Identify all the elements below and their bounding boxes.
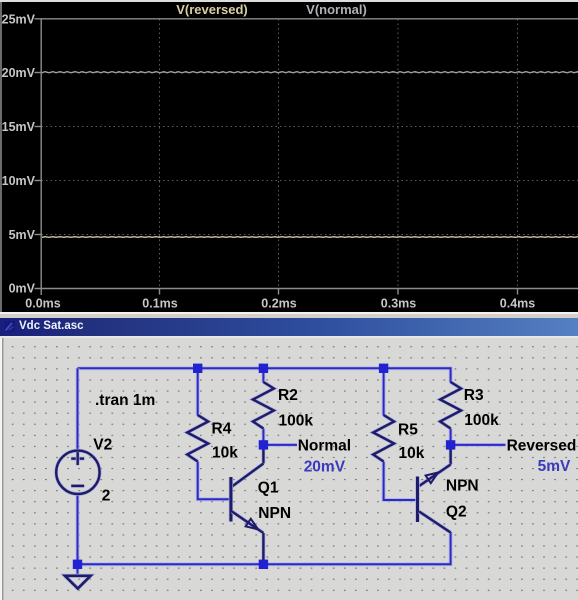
svg-text:0.2ms: 0.2ms bbox=[261, 297, 296, 311]
trace label V(reversed) bbox=[150, 2, 274, 17]
svg-text:15mV: 15mV bbox=[2, 120, 36, 134]
svg-text:Reversed: Reversed bbox=[507, 437, 577, 454]
svg-text:NPN: NPN bbox=[258, 505, 291, 522]
svg-text:Normal: Normal bbox=[298, 437, 351, 454]
svg-text:R4: R4 bbox=[212, 421, 232, 438]
wire R2 bottom lead bbox=[261, 429, 265, 442]
svg-text:R2: R2 bbox=[278, 387, 298, 404]
svg-text:NPN: NPN bbox=[446, 478, 479, 495]
annotation 20mV bbox=[304, 459, 346, 476]
resistor R4 bbox=[187, 415, 208, 462]
label Q2 bbox=[446, 504, 467, 521]
svg-text:Q1: Q1 bbox=[258, 480, 279, 497]
svg-text:5mV: 5mV bbox=[538, 458, 571, 475]
junction ground node bbox=[73, 560, 82, 569]
wire R2 top lead bbox=[261, 368, 265, 382]
value 100k (R2) bbox=[279, 412, 314, 429]
svg-text:100k: 100k bbox=[464, 412, 499, 429]
wire R4 bottom to Q1 base bbox=[198, 462, 230, 500]
svg-text:10mV: 10mV bbox=[2, 174, 36, 188]
horizontal dotted gridlines bbox=[42, 73, 578, 235]
trace label V(normal) bbox=[280, 2, 393, 17]
value 100k (R3) bbox=[464, 412, 499, 429]
svg-text:2: 2 bbox=[102, 488, 111, 505]
value 10k (R5) bbox=[399, 445, 425, 462]
svg-text:0mV: 0mV bbox=[9, 282, 36, 296]
wire R5 top lead bbox=[382, 368, 386, 415]
voltage source V2 bbox=[56, 451, 99, 494]
resistor R3 bbox=[440, 382, 461, 429]
wire R5 bottom to Q2 base bbox=[384, 462, 416, 501]
svg-text:100k: 100k bbox=[279, 412, 314, 429]
trace V(reversed) 5mV bbox=[42, 236, 578, 239]
svg-text:20mV: 20mV bbox=[304, 459, 346, 476]
wire top rail with corner to R3 bbox=[78, 368, 451, 382]
ground bbox=[65, 568, 91, 589]
svg-text:Q2: Q2 bbox=[446, 504, 467, 521]
label Q1 bbox=[258, 480, 279, 497]
y-axis ticks bbox=[35, 73, 42, 235]
svg-text:V2: V2 bbox=[93, 437, 112, 454]
x-axis labels bbox=[25, 297, 535, 311]
trace V(normal) 20mV bbox=[42, 72, 578, 73]
wire node Normal stub bbox=[268, 443, 298, 447]
label V2 bbox=[93, 437, 112, 454]
resistor R5 bbox=[373, 415, 394, 462]
svg-text:R3: R3 bbox=[464, 387, 484, 404]
x-axis ticks bbox=[160, 289, 518, 295]
svg-text:R5: R5 bbox=[398, 422, 418, 439]
svg-text:10k: 10k bbox=[212, 445, 238, 462]
wire R4 top lead bbox=[196, 368, 200, 415]
net label Normal bbox=[298, 437, 351, 454]
transistor Q2 (reversed) bbox=[418, 447, 451, 533]
value 2 bbox=[102, 488, 111, 505]
svg-text:25mV: 25mV bbox=[2, 13, 36, 27]
svg-text:0.0ms: 0.0ms bbox=[25, 297, 60, 311]
plot border bbox=[35, 19, 578, 295]
svg-text:0.1ms: 0.1ms bbox=[142, 297, 177, 311]
junction Q1 emitter at bottom rail bbox=[259, 560, 268, 569]
junction on top rail at R4 bbox=[193, 364, 202, 373]
wire bottom rail with corner to Q2 collector bbox=[78, 532, 451, 564]
svg-text:0.4ms: 0.4ms bbox=[500, 297, 535, 311]
value NPN (Q2) bbox=[446, 478, 479, 495]
svg-text:5mV: 5mV bbox=[9, 228, 36, 242]
wire left rail V2 top bbox=[76, 368, 80, 451]
svg-text:20mV: 20mV bbox=[2, 66, 36, 80]
resistor R2 bbox=[253, 382, 274, 429]
svg-text:10k: 10k bbox=[399, 445, 425, 462]
junction on top rail at R2 bbox=[259, 364, 268, 373]
wire R3 bottom lead bbox=[449, 429, 453, 442]
svg-text:0.3ms: 0.3ms bbox=[381, 297, 416, 311]
directive .tran 1m bbox=[95, 392, 155, 409]
vertical dotted gridlines bbox=[160, 19, 518, 288]
net label Reversed bbox=[507, 437, 577, 454]
value NPN (Q1) bbox=[258, 505, 291, 522]
label R3 bbox=[464, 387, 484, 404]
svg-text:.tran 1m: .tran 1m bbox=[95, 392, 155, 409]
label R2 bbox=[278, 387, 298, 404]
junction on top rail at R5 bbox=[379, 364, 388, 373]
wire V2 bottom to ground node bbox=[76, 494, 80, 565]
canvas left border bbox=[0, 338, 4, 600]
transistor Q1 bbox=[231, 450, 264, 561]
pane left gray edge bbox=[0, 2, 2, 313]
wire node Reversed stub bbox=[455, 443, 506, 447]
junction node Normal bbox=[259, 440, 268, 449]
pane top light edge bbox=[0, 0, 578, 2]
junction node Reversed bbox=[446, 440, 455, 449]
value 10k (R4) bbox=[212, 445, 238, 462]
label R4 bbox=[212, 421, 232, 438]
label R5 bbox=[398, 422, 418, 439]
y-axis labels bbox=[2, 13, 36, 296]
annotation 5mV bbox=[538, 458, 571, 475]
